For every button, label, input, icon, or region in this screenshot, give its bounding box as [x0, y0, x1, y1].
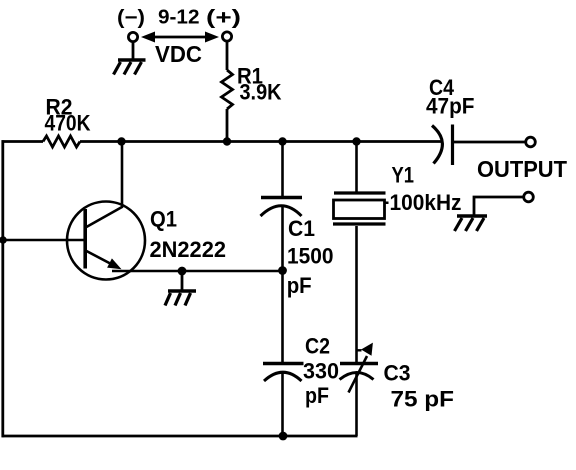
terminal negative	[128, 32, 137, 41]
node base junction	[0, 236, 7, 244]
wire C3 to bottom rail	[355, 373, 358, 437]
node emitter C1 junction	[278, 266, 287, 275]
wire negative terminal to ground	[132, 42, 135, 61]
svg-text:OUTPUT: OUTPUT	[477, 156, 567, 182]
svg-text:pF: pF	[287, 273, 312, 298]
wire emitter	[112, 270, 283, 273]
bottom rail	[2, 435, 358, 438]
svg-text:2N2222: 2N2222	[150, 237, 227, 262]
capacitor C1	[261, 198, 303, 217]
wire top rail to Y1	[355, 142, 358, 192]
wire emitter to ground	[181, 271, 184, 291]
svg-text:1500: 1500	[287, 244, 334, 269]
capacitor C4	[432, 125, 453, 166]
node R1 junction	[223, 137, 231, 145]
svg-text:pF: pF	[305, 383, 329, 408]
crystal Y1	[333, 193, 386, 224]
capacitor C2	[263, 364, 304, 382]
svg-text:9-12: 9-12	[158, 7, 200, 29]
node C1 top junction	[278, 137, 286, 145]
VDC range arrow	[141, 32, 219, 43]
wire output ground	[474, 197, 524, 216]
wire base	[3, 239, 85, 242]
svg-text:C3: C3	[384, 361, 411, 386]
svg-text:Y1: Y1	[392, 163, 415, 188]
top rail	[80, 140, 441, 143]
wire C4 to output	[453, 141, 527, 144]
node Y1 top junction	[352, 137, 360, 145]
svg-text:VDC: VDC	[155, 41, 202, 67]
svg-text:100kHz: 100kHz	[390, 190, 462, 215]
svg-text:Q1: Q1	[150, 207, 177, 232]
wire collector	[86, 142, 123, 228]
wire R1 to top rail	[226, 109, 229, 142]
svg-text:(−): (−)	[117, 7, 145, 29]
svg-text:470K: 470K	[45, 111, 91, 136]
transistor Q1	[67, 202, 145, 280]
node emitter ground junction	[178, 267, 187, 276]
svg-text:47pF: 47pF	[426, 94, 475, 119]
ground (emitter)	[165, 291, 196, 306]
terminal output hot	[526, 137, 536, 147]
capacitor C3 variable	[340, 343, 379, 393]
node collector junction	[117, 137, 125, 145]
wire top rail to C1	[281, 142, 284, 196]
svg-text:(+): (+)	[206, 7, 241, 29]
wire positive terminal to R1	[226, 42, 229, 71]
svg-text:75 pF: 75 pF	[391, 387, 455, 412]
node bottom rail junction	[279, 432, 288, 441]
svg-text:330: 330	[303, 359, 339, 384]
resistor R2	[43, 136, 80, 147]
svg-text:3.9K: 3.9K	[240, 80, 282, 105]
svg-text:C1: C1	[288, 216, 315, 241]
terminal positive	[222, 32, 231, 41]
wire C1 to C2	[281, 207, 284, 364]
terminal output ground	[524, 192, 534, 202]
wire Y1 to C3	[355, 226, 358, 363]
wire C2 to bottom rail	[281, 373, 284, 437]
left vertical wire	[1, 140, 4, 437]
ground (output)	[455, 216, 488, 231]
ground (power negative)	[114, 60, 146, 75]
speck leader dot	[385, 202, 389, 205]
resistor R1	[222, 70, 233, 109]
svg-text:C2: C2	[305, 334, 330, 359]
top rail left segment	[2, 140, 44, 143]
